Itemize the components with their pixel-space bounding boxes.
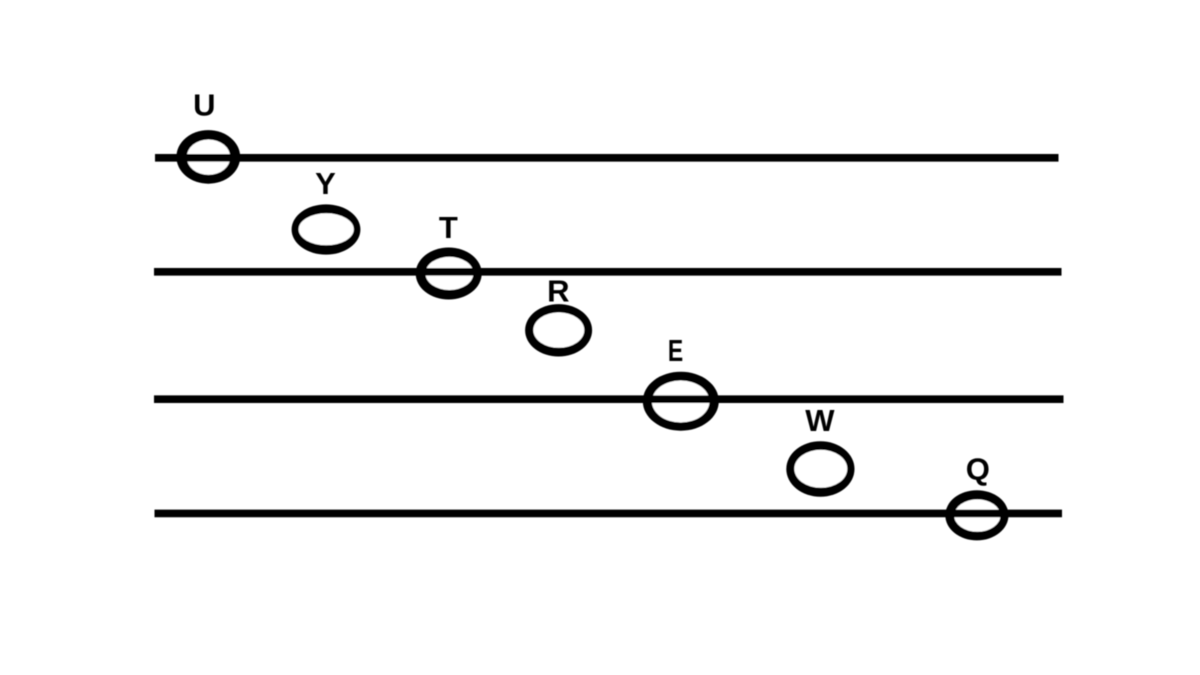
- ellipse W between lines 3 and 4: [786, 441, 854, 496]
- ellipse R between lines 2 and 3: [525, 304, 592, 356]
- ellipse Q on line 4: [945, 490, 1008, 540]
- svg-text:E: E: [668, 333, 683, 368]
- svg-text:R: R: [547, 274, 569, 309]
- ellipse E on line 3: [643, 372, 719, 431]
- svg-text:U: U: [193, 88, 215, 123]
- svg-text:Y: Y: [315, 166, 336, 201]
- ellipse T on line 2: [416, 248, 482, 300]
- svg-text:Q: Q: [966, 451, 990, 486]
- staff line 4: [155, 510, 1063, 518]
- ellipse Y between lines 1 and 2: [292, 204, 361, 254]
- svg-text:T: T: [439, 210, 458, 245]
- staff line 3: [154, 395, 1064, 403]
- svg-text:W: W: [805, 403, 835, 438]
- staff line 1: [155, 154, 1059, 162]
- ellipse U on line 1: [176, 130, 240, 184]
- staff line 2: [154, 268, 1062, 276]
